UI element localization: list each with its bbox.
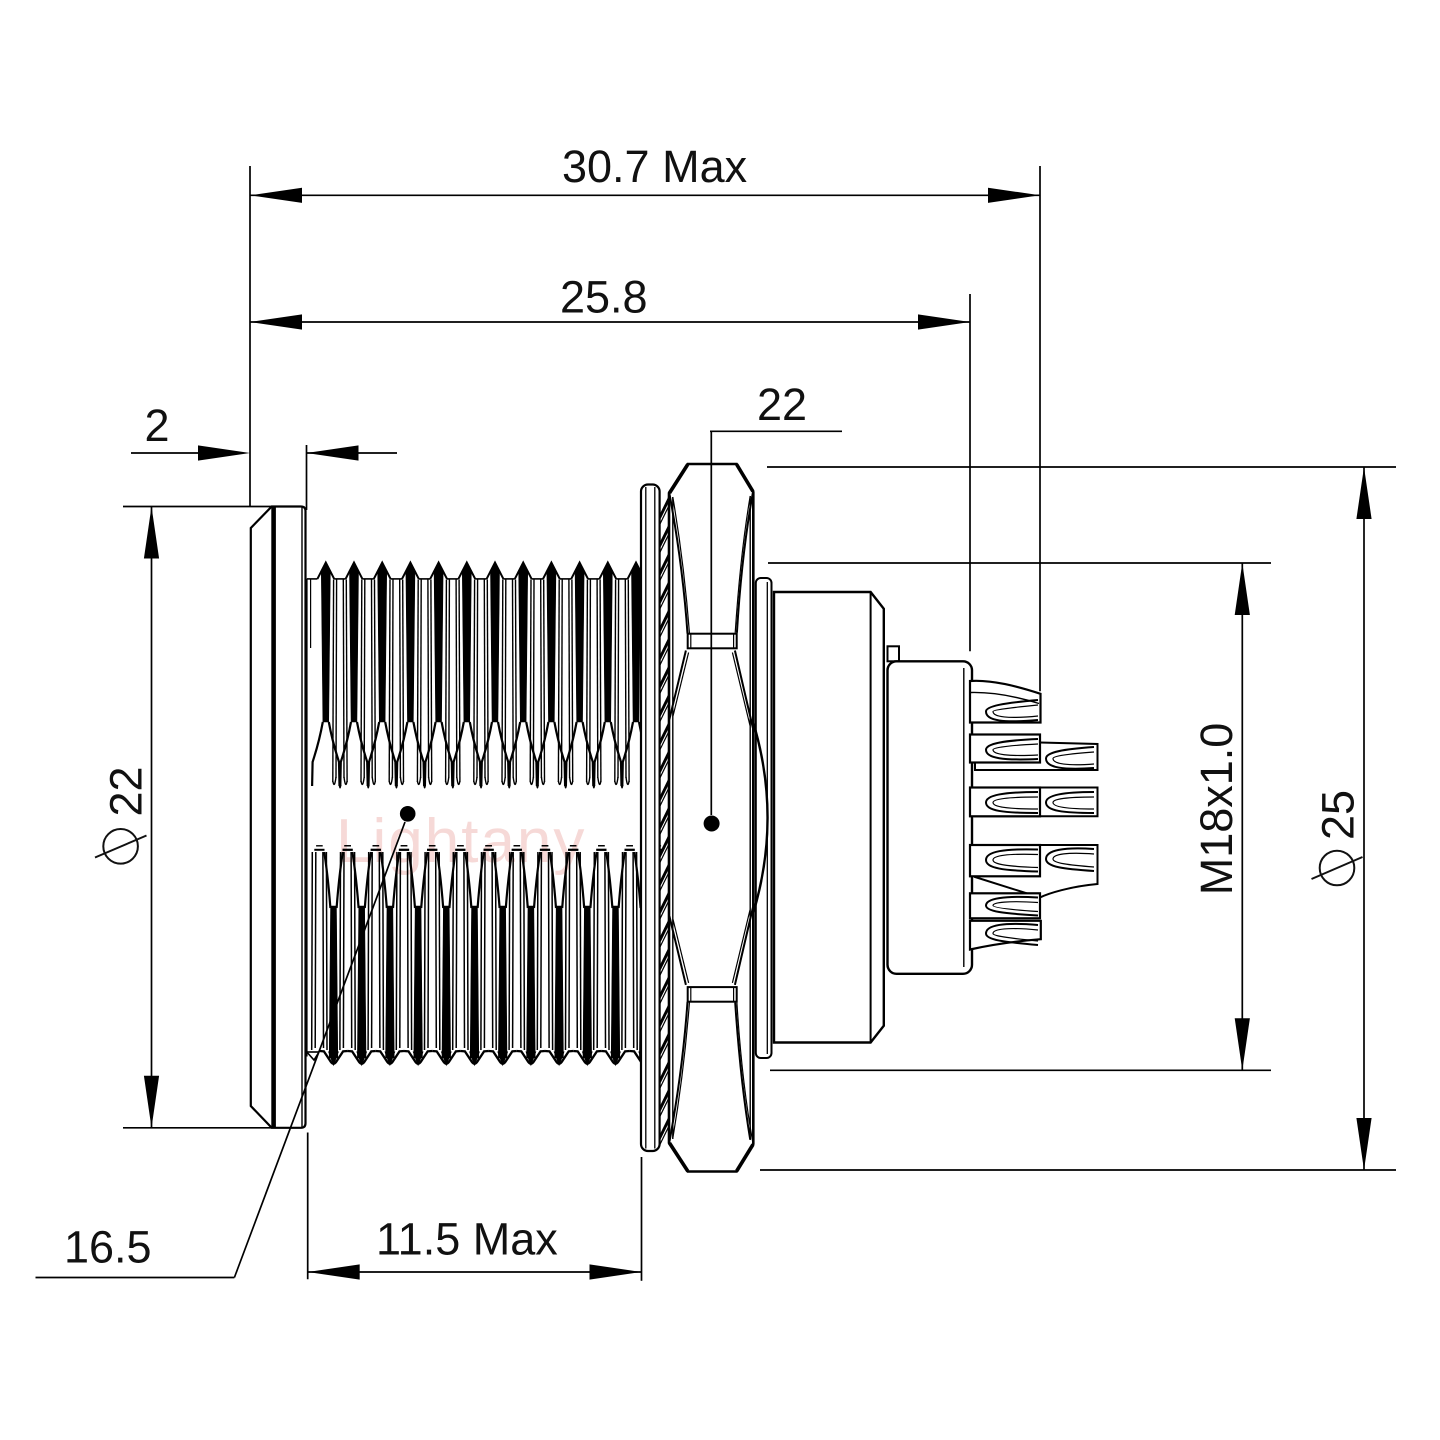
pin near row4 — [970, 845, 1040, 876]
dim dia22 flange — [123, 507, 271, 1128]
svg-text:2: 2 — [144, 400, 169, 451]
thread barrel lower band — [312, 846, 663, 1065]
svg-text:M18x1.0: M18x1.0 — [1191, 723, 1242, 896]
svg-text:25.8: 25.8 — [560, 272, 648, 323]
pin near row2 — [970, 735, 1040, 763]
dim 11.5 Max — [308, 1133, 642, 1281]
dim 2 (flange thickness) — [131, 445, 397, 510]
dim 22 nut leader — [710, 431, 842, 815]
pin near row6 — [970, 921, 1041, 950]
svg-text:11.5 Max: 11.5 Max — [376, 1214, 558, 1265]
svg-text:22: 22 — [757, 379, 807, 430]
dim 16.5 leader — [36, 822, 406, 1278]
pin near row3 — [970, 788, 1040, 817]
gasket disc behind nut — [756, 578, 772, 1058]
insulator body — [888, 646, 973, 974]
dim dia25 — [760, 467, 1396, 1170]
pin far row2 — [975, 743, 1098, 771]
thread barrel upper band — [312, 563, 657, 788]
pin far row4 — [975, 845, 1098, 898]
threads between washer and nut — [660, 498, 670, 1145]
dim M18x1.0 — [768, 563, 1271, 1070]
dim 30.7 Max — [250, 166, 1040, 691]
barrel left edge — [307, 579, 320, 1060]
svg-text:25: 25 — [1313, 790, 1364, 840]
hex nut — [669, 464, 753, 1172]
washer — [641, 485, 660, 1152]
svg-text:22: 22 — [101, 766, 152, 816]
flange plate — [251, 507, 306, 1128]
svg-text:30.7 Max: 30.7 Max — [562, 141, 748, 192]
svg-text:16.5: 16.5 — [64, 1222, 152, 1273]
pin near row1 — [970, 681, 1041, 723]
dim 25.8 — [250, 294, 970, 651]
pin near row5 — [970, 893, 1040, 918]
nut chamfer arc — [753, 722, 767, 914]
pin far row3 — [975, 788, 1098, 817]
rear shell body — [774, 592, 884, 1043]
